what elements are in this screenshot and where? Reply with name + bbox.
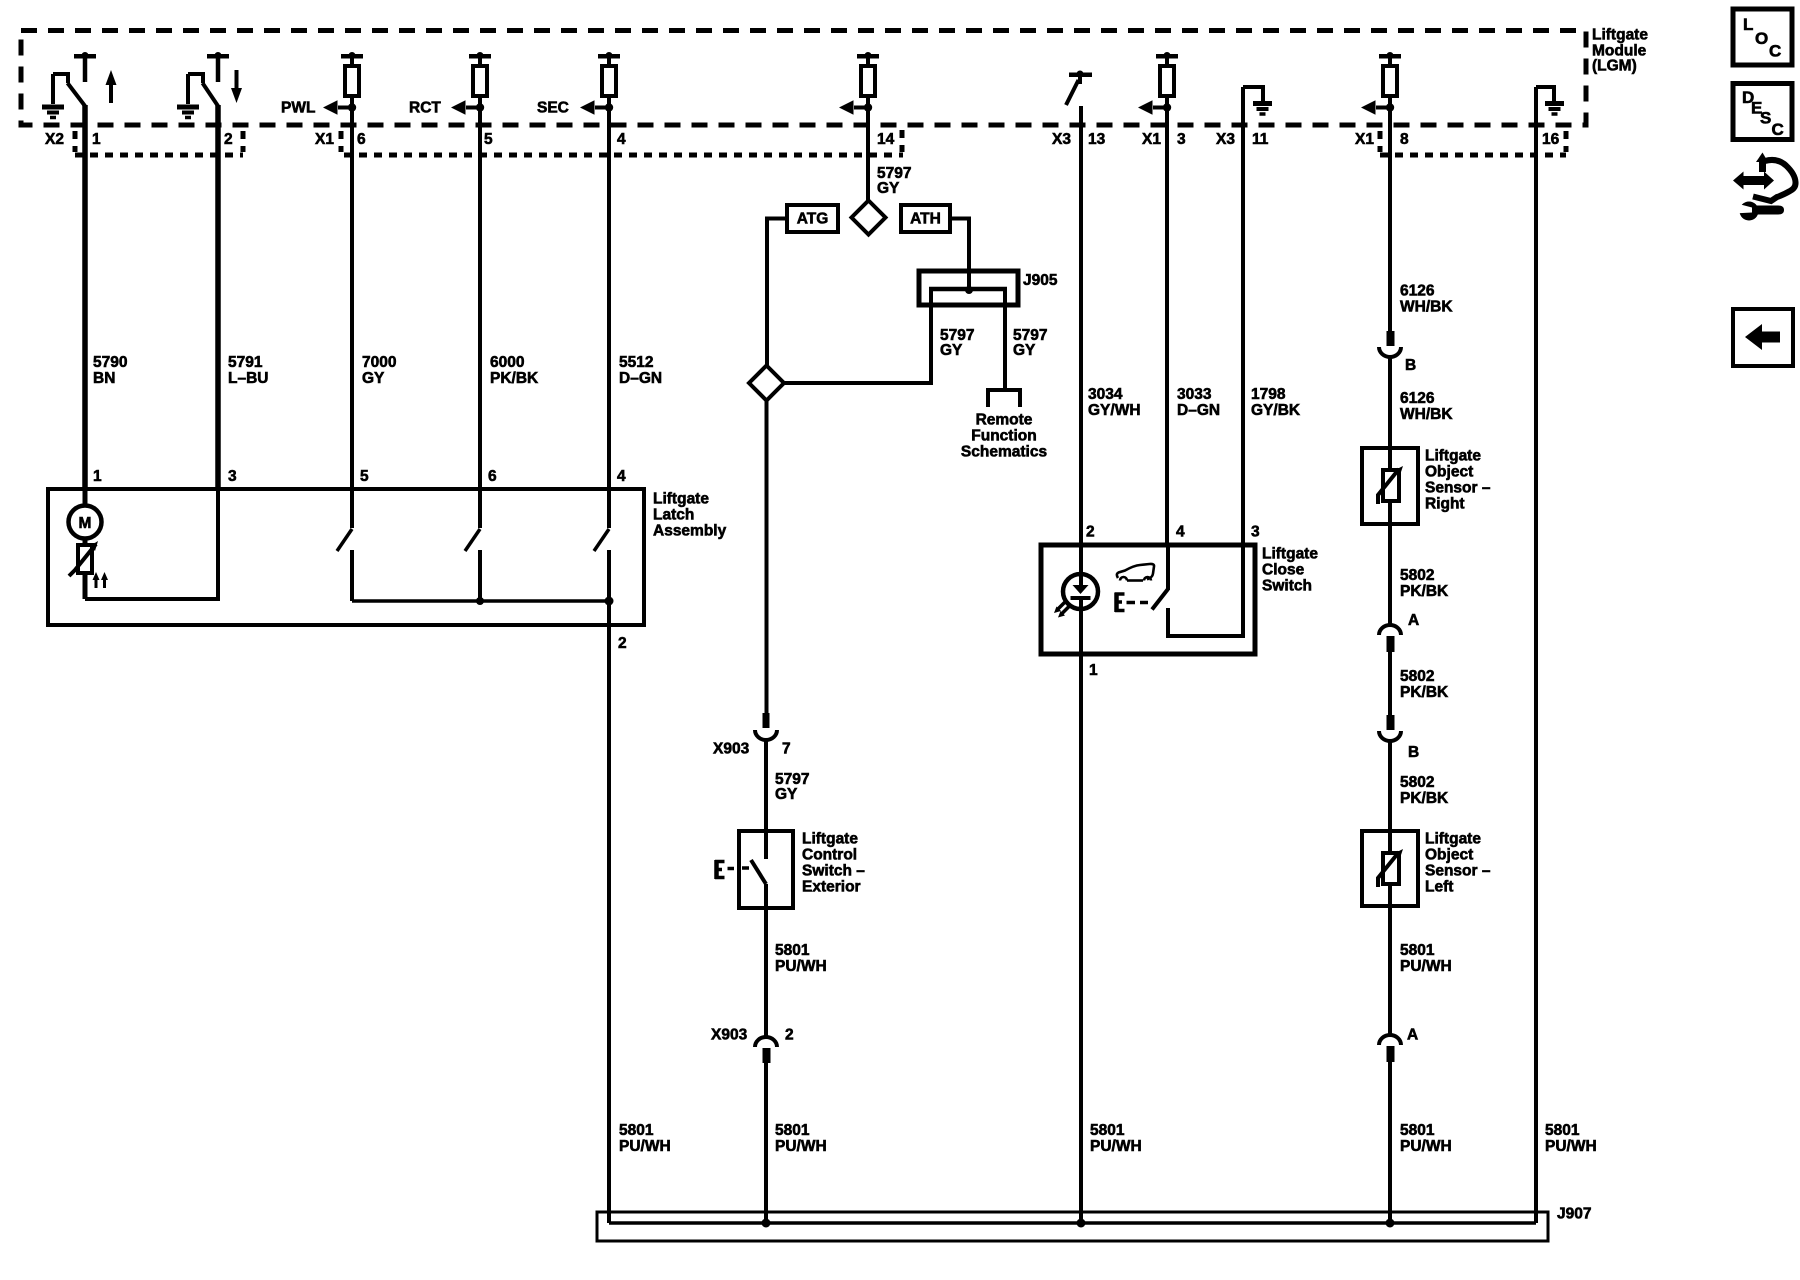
svg-text:O: O xyxy=(1755,29,1768,48)
right sensor element (variable resistor) xyxy=(1378,466,1403,504)
svg-text:6: 6 xyxy=(488,468,497,485)
svg-text:(LGM): (LGM) xyxy=(1592,58,1637,75)
wire splice to connector X903-7 xyxy=(765,401,769,714)
Liftgate Control Switch box xyxy=(739,831,793,908)
svg-text:GY: GY xyxy=(1013,342,1036,359)
resistor (pin X1-3 output) xyxy=(1156,52,1178,96)
svg-text:PU/WH: PU/WH xyxy=(1400,1138,1452,1155)
connector X2 dotted outline xyxy=(75,131,243,155)
latch switch (pin 5) xyxy=(337,489,352,601)
ground (open switch S1) xyxy=(42,74,64,118)
double up arrows (latch sensor) xyxy=(93,572,109,588)
svg-text:X903: X903 xyxy=(711,1027,748,1044)
close switch contact and blade xyxy=(1152,546,1243,636)
X903 pin 2 label xyxy=(711,1027,794,1044)
label 6000 PK/BK xyxy=(490,354,539,387)
connector B label (right) xyxy=(1405,357,1416,374)
wire 5801 connector A to J907 xyxy=(1388,1062,1392,1223)
resistor (PWL output) xyxy=(341,52,363,96)
Remote Function Schematics label xyxy=(961,412,1047,461)
svg-text:PWL: PWL xyxy=(281,100,315,117)
svg-text:Liftgate: Liftgate xyxy=(1592,27,1648,44)
svg-text:PK/BK: PK/BK xyxy=(1400,583,1449,600)
svg-text:5: 5 xyxy=(484,131,493,148)
svg-text:5801: 5801 xyxy=(775,942,810,959)
svg-text:1: 1 xyxy=(1089,662,1098,679)
svg-text:PK/BK: PK/BK xyxy=(1400,684,1449,701)
resistor (SEC output) xyxy=(598,52,620,96)
latch internal bus wire xyxy=(352,599,609,603)
svg-text:3: 3 xyxy=(228,468,237,485)
splice diamond (5797 upper) xyxy=(852,201,886,235)
J907 label xyxy=(1557,1206,1591,1223)
svg-text:1: 1 xyxy=(93,468,102,485)
wire circuit 5790 (pin 1 to latch) xyxy=(82,105,88,490)
svg-text:D–GN: D–GN xyxy=(619,370,662,387)
latch pin labels xyxy=(93,468,627,652)
svg-text:GY: GY xyxy=(775,786,798,803)
svg-text:Liftgate: Liftgate xyxy=(1425,831,1481,848)
svg-text:5801: 5801 xyxy=(1545,1122,1580,1139)
diagnostic car icon with arrows and wrench xyxy=(1733,153,1796,221)
svg-text:GY: GY xyxy=(877,180,900,197)
svg-text:X3: X3 xyxy=(1052,131,1071,148)
pin 14 arrow xyxy=(839,100,872,114)
Liftgate Latch Assembly label xyxy=(653,491,727,540)
svg-text:5801: 5801 xyxy=(1400,942,1435,959)
X903 pin 7 label xyxy=(713,741,791,758)
wire circuit 3033 (pin X1-3 to close switch) xyxy=(1165,96,1169,546)
svg-text:B: B xyxy=(1408,744,1419,761)
svg-text:5801: 5801 xyxy=(619,1122,654,1139)
wire 5802 connector A to connector B (left) xyxy=(1388,652,1392,715)
svg-text:16: 16 xyxy=(1542,131,1560,148)
connector X1 pin labels xyxy=(315,131,895,148)
svg-text:6126: 6126 xyxy=(1400,390,1435,407)
svg-text:Exterior: Exterior xyxy=(802,879,861,896)
svg-text:S: S xyxy=(1760,109,1771,128)
svg-text:11: 11 xyxy=(1252,131,1269,148)
label 5802 PK/BK (middle) xyxy=(1400,668,1449,701)
svg-text:WH/BK: WH/BK xyxy=(1400,299,1453,316)
switch (pin X3-13) xyxy=(1066,71,1092,106)
svg-text:C: C xyxy=(1769,42,1781,61)
svg-text:A: A xyxy=(1407,1027,1418,1044)
label 3033 D-GN xyxy=(1177,386,1220,419)
svg-text:J905: J905 xyxy=(1023,272,1058,289)
Liftgate Module (LGM) label xyxy=(1592,27,1648,75)
label 5801 PU/WH (bottom latch) xyxy=(619,1122,671,1155)
liftgate car icon (close switch) xyxy=(1117,564,1154,581)
svg-text:PU/WH: PU/WH xyxy=(1545,1138,1597,1155)
SEC label xyxy=(537,100,569,117)
wire 5802 connector B to left sensor xyxy=(1388,740,1392,853)
label 5801 PU/WH (left sensor) xyxy=(1400,942,1452,975)
svg-text:2: 2 xyxy=(224,131,233,148)
in-line connector X903 pin 2 xyxy=(755,1037,777,1063)
svg-text:A: A xyxy=(1408,612,1419,629)
label 5801 PU/WH (bottom left sensor) xyxy=(1400,1122,1452,1155)
splice pack J905 xyxy=(919,271,1018,305)
net SEC arrow xyxy=(580,100,613,114)
junction (left sensor wire to J907) xyxy=(1386,1219,1395,1228)
svg-text:Liftgate: Liftgate xyxy=(802,831,858,848)
label 5801 PU/WH (bottom close switch) xyxy=(1090,1122,1142,1155)
wire circuit 6126 (pin X1-8 to connector B) xyxy=(1388,96,1392,332)
latch switch (pin 6) xyxy=(465,489,480,601)
E actuator symbol (close switch) xyxy=(1115,593,1148,613)
svg-text:Control: Control xyxy=(802,847,857,864)
svg-text:Liftgate: Liftgate xyxy=(653,491,709,508)
connector X2 pin labels xyxy=(45,131,233,148)
svg-text:4: 4 xyxy=(617,468,626,485)
svg-text:7000: 7000 xyxy=(362,354,396,371)
Liftgate Latch Assembly box xyxy=(48,489,644,625)
svg-text:Assembly: Assembly xyxy=(653,523,727,540)
Liftgate Close Switch label xyxy=(1262,546,1318,595)
svg-text:Sensor –: Sensor – xyxy=(1425,480,1491,497)
RCT label xyxy=(409,100,441,117)
svg-text:2: 2 xyxy=(785,1027,794,1044)
svg-text:5802: 5802 xyxy=(1400,668,1434,685)
ATH net reference box xyxy=(901,205,950,232)
label 5790 BN xyxy=(93,354,127,387)
connector pins X3-13 X1-3 X3-11 labels xyxy=(1052,131,1269,148)
LED arrows xyxy=(1054,602,1069,618)
svg-text:B: B xyxy=(1405,357,1416,374)
svg-text:5801: 5801 xyxy=(775,1122,810,1139)
Liftgate Object Sensor Left box xyxy=(1362,831,1418,906)
Liftgate Module (LGM) dashed boundary xyxy=(21,31,1586,126)
connector B label (left) xyxy=(1408,744,1419,761)
label 7000 GY xyxy=(362,354,396,387)
down arrow (close direction) xyxy=(231,70,242,103)
svg-text:3: 3 xyxy=(1177,131,1186,148)
wire 5802 right sensor to connector A xyxy=(1388,501,1392,625)
label 5797 GY (J905 right) xyxy=(1013,327,1047,359)
svg-text:Liftgate: Liftgate xyxy=(1425,448,1481,465)
svg-text:5802: 5802 xyxy=(1400,567,1434,584)
svg-text:RCT: RCT xyxy=(409,100,441,117)
label 5512 D-GN xyxy=(619,354,662,387)
svg-text:Switch: Switch xyxy=(1262,578,1312,595)
svg-text:ATH: ATH xyxy=(910,211,941,228)
svg-text:5791: 5791 xyxy=(228,354,263,371)
E actuator symbol (control switch) xyxy=(715,860,734,879)
svg-text:4: 4 xyxy=(1176,524,1185,541)
splice diamond (5797 lower) xyxy=(749,366,784,401)
svg-text:5: 5 xyxy=(360,468,369,485)
wire 5801 control switch to X903-2 xyxy=(764,908,768,1037)
svg-text:J907: J907 xyxy=(1557,1206,1591,1223)
close switch LED indicator xyxy=(1063,546,1098,654)
svg-text:D–GN: D–GN xyxy=(1177,402,1220,419)
svg-text:Latch: Latch xyxy=(653,507,694,524)
wire circuit 7000 (pin 6 to latch) xyxy=(350,96,354,490)
liftgate close switch S2 (module internal) xyxy=(188,52,229,106)
PWL label xyxy=(281,100,315,117)
svg-text:C: C xyxy=(1772,120,1784,139)
DESC icon box xyxy=(1733,84,1792,140)
label 3034 GY/WH xyxy=(1088,386,1141,419)
label 5801 PU/WH (bottom X903) xyxy=(775,1122,827,1155)
svg-text:PU/WH: PU/WH xyxy=(1400,958,1452,975)
svg-text:SEC: SEC xyxy=(537,100,569,117)
wire ATH to J905 xyxy=(950,219,969,289)
svg-text:GY: GY xyxy=(940,342,963,359)
control switch internals xyxy=(742,831,766,908)
svg-text:5802: 5802 xyxy=(1400,774,1434,791)
wire circuit 5801 (close switch pin 1 to J907) xyxy=(1079,654,1083,1223)
label 6126 WH/BK upper xyxy=(1400,283,1453,316)
svg-text:Liftgate: Liftgate xyxy=(1262,546,1318,563)
svg-text:3: 3 xyxy=(1251,524,1260,541)
svg-text:1798: 1798 xyxy=(1251,386,1286,403)
resistor (pin X1-8 output) xyxy=(1379,52,1401,96)
svg-text:Function: Function xyxy=(971,428,1036,445)
svg-text:Switch –: Switch – xyxy=(802,863,865,880)
LOC icon box xyxy=(1733,9,1792,65)
wire J905 left output 5797 xyxy=(785,289,931,383)
in-line connector X903 pin 7 xyxy=(755,713,777,740)
left sensor element (variable resistor) xyxy=(1378,849,1403,887)
close switch pin labels xyxy=(1086,524,1260,680)
wire circuit 5512 (pin 4 to latch) xyxy=(607,96,611,490)
net PWL arrow xyxy=(323,100,356,114)
wire circuit 5791 (pin 2 to latch) xyxy=(215,105,221,490)
svg-text:6000: 6000 xyxy=(490,354,524,371)
label 5802 PK/BK (above left sensor) xyxy=(1400,774,1449,807)
in-line connector B (right sensor) xyxy=(1379,331,1401,357)
splice pack J907 xyxy=(597,1212,1548,1241)
junction (close switch wire to J907) xyxy=(1077,1219,1086,1228)
svg-text:L: L xyxy=(1743,15,1753,34)
off-page reference bracket (Remote Function Schematics) xyxy=(988,390,1020,407)
label 5791 L-BU xyxy=(228,354,268,387)
latch switch (pin 4) xyxy=(594,489,609,601)
Liftgate Close Switch box xyxy=(1041,545,1255,654)
ground (pin 16) xyxy=(1536,87,1564,114)
svg-text:14: 14 xyxy=(877,131,895,148)
svg-text:X1: X1 xyxy=(1355,131,1374,148)
svg-text:3033: 3033 xyxy=(1177,386,1212,403)
ground (close switch S2) xyxy=(177,74,199,118)
svg-text:X3: X3 xyxy=(1216,131,1235,148)
svg-text:M: M xyxy=(79,515,92,532)
svg-text:X2: X2 xyxy=(45,131,64,148)
svg-text:X903: X903 xyxy=(713,741,750,758)
svg-text:WH/BK: WH/BK xyxy=(1400,406,1453,423)
wire J905 right output 5797 xyxy=(1003,289,1007,391)
svg-text:GY/BK: GY/BK xyxy=(1251,402,1301,419)
Liftgate Object Sensor Right box xyxy=(1362,448,1418,524)
svg-text:3034: 3034 xyxy=(1088,386,1123,403)
label 5802 PK/BK (below right sensor) xyxy=(1400,567,1449,600)
svg-text:Object: Object xyxy=(1425,847,1473,864)
wire ATG to lower splice xyxy=(767,219,787,367)
svg-text:ATG: ATG xyxy=(797,211,829,228)
svg-text:L–BU: L–BU xyxy=(228,370,268,387)
svg-text:6: 6 xyxy=(357,131,366,148)
in-line connector A (left sensor) xyxy=(1379,1035,1401,1062)
wire circuit 6000 (pin 5 to latch) xyxy=(478,96,482,490)
svg-text:BN: BN xyxy=(93,370,115,387)
junction (pin 4 to bus) xyxy=(605,597,614,606)
svg-text:1: 1 xyxy=(92,131,101,148)
wire circuit 3034 (pin X3-13 to close switch) xyxy=(1079,106,1083,546)
svg-text:PU/WH: PU/WH xyxy=(775,1138,827,1155)
svg-text:5801: 5801 xyxy=(1090,1122,1125,1139)
svg-text:5790: 5790 xyxy=(93,354,127,371)
connector X1 dotted outline xyxy=(341,130,903,155)
in-line connector A (right sensor) xyxy=(1379,625,1401,652)
label 1798 GY/BK xyxy=(1251,386,1301,419)
label 5801 PU/WH (bottom right) xyxy=(1545,1122,1597,1155)
svg-text:PK/BK: PK/BK xyxy=(490,370,539,387)
svg-text:Left: Left xyxy=(1425,879,1453,896)
svg-text:4: 4 xyxy=(617,131,626,148)
label 6126 WH/BK lower xyxy=(1400,390,1453,423)
svg-text:Object: Object xyxy=(1425,464,1473,481)
resistor (pin 14 output) xyxy=(857,52,879,96)
junction (pin 6 to bus) xyxy=(476,597,484,605)
svg-text:Sensor –: Sensor – xyxy=(1425,863,1491,880)
svg-text:2: 2 xyxy=(618,635,627,652)
svg-text:Remote: Remote xyxy=(976,412,1033,429)
ATG net reference box xyxy=(787,205,838,232)
svg-text:2: 2 xyxy=(1086,524,1095,541)
motor M1 (latch motor) xyxy=(69,489,102,545)
wire circuit 5801 (latch pin 2 to J907) xyxy=(607,601,611,1223)
svg-text:5801: 5801 xyxy=(1400,1122,1435,1139)
wire 5801 X903-2 to J907 xyxy=(764,1063,768,1223)
svg-text:GY/WH: GY/WH xyxy=(1088,402,1141,419)
ground (pin X3-11) xyxy=(1243,87,1272,114)
svg-text:GY: GY xyxy=(362,370,385,387)
svg-text:8: 8 xyxy=(1400,131,1409,148)
J905 label xyxy=(1023,272,1058,289)
label 5801 PU/WH (control switch) xyxy=(775,942,827,975)
wire 6126 connector B to right sensor xyxy=(1388,356,1392,470)
position sensor (variable resistor) xyxy=(69,541,98,599)
svg-text:7: 7 xyxy=(782,741,791,758)
wire (latch internal pin 3 branch) xyxy=(85,489,218,599)
svg-text:5512: 5512 xyxy=(619,354,653,371)
connector A label (right) xyxy=(1408,612,1419,629)
liftgate open switch S1 xyxy=(53,52,96,106)
wire 5797 X903-7 to control switch xyxy=(764,740,768,832)
wire 5801 left sensor to connector A xyxy=(1388,884,1392,1035)
svg-text:PU/WH: PU/WH xyxy=(1090,1138,1142,1155)
connector X1 pins 8-16 dotted outline xyxy=(1380,131,1566,155)
svg-text:PU/WH: PU/WH xyxy=(775,958,827,975)
Liftgate Control Switch label xyxy=(802,831,865,896)
svg-text:X1: X1 xyxy=(1142,131,1161,148)
pin X1-8 arrow xyxy=(1361,100,1394,114)
label 5797 GY (J905 left) xyxy=(940,327,974,359)
svg-text:Schematics: Schematics xyxy=(961,444,1047,461)
label 5797 GY (control switch) xyxy=(775,771,809,803)
svg-text:PK/BK: PK/BK xyxy=(1400,790,1449,807)
up arrow (open direction) xyxy=(106,70,117,103)
junction (X903-2 wire to J907) xyxy=(762,1219,771,1228)
Liftgate Object Sensor Left label xyxy=(1425,831,1491,896)
pin X1-3 arrow xyxy=(1138,100,1171,114)
wire circuit 1798 (pin X3-11 to close switch) xyxy=(1241,87,1245,546)
svg-text:13: 13 xyxy=(1088,131,1106,148)
Liftgate Object Sensor Right label xyxy=(1425,448,1491,513)
label 5797 GY (pin 14) xyxy=(877,165,911,197)
resistor (RCT output) xyxy=(469,52,491,96)
net RCT arrow xyxy=(451,100,484,114)
wire circuit 5797 (pin 14 to splice) xyxy=(866,96,870,202)
svg-text:X1: X1 xyxy=(315,131,334,148)
svg-text:Close: Close xyxy=(1262,562,1305,579)
back arrow icon box xyxy=(1733,309,1793,366)
connector A label (left) xyxy=(1407,1027,1418,1044)
svg-text:PU/WH: PU/WH xyxy=(619,1138,671,1155)
connector X1 pin 8 and pin 16 labels xyxy=(1355,131,1560,148)
in-line connector B (left sensor) xyxy=(1379,715,1401,741)
wire circuit 5801 (pin 16 to J907) xyxy=(1534,87,1538,1223)
svg-text:Right: Right xyxy=(1425,496,1465,513)
svg-text:6126: 6126 xyxy=(1400,283,1435,300)
